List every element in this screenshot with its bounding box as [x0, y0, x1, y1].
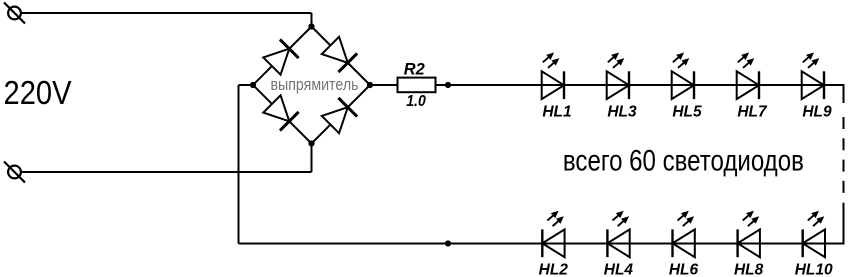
svg-text:220V: 220V: [4, 74, 72, 111]
svg-text:HL3: HL3: [607, 104, 637, 121]
bridge rectifier frame (diamond): [253, 27, 370, 144]
svg-text:1.0: 1.0: [406, 93, 426, 110]
wire: right side vertical (solid bottom): [843, 203, 845, 245]
junction bridge plus node: [367, 82, 373, 88]
LED HL8: [738, 211, 760, 257]
wire: right side vertical dashed (continuation mark): [843, 117, 845, 193]
diode VD1 (left-top arm): [263, 39, 298, 74]
svg-text:HL1: HL1: [542, 104, 571, 121]
junction node after R2: [445, 82, 451, 88]
wire: bridge minus output, left/down/bottom rail: [239, 85, 844, 244]
svg-text:HL5: HL5: [672, 104, 702, 121]
junction bridge minus node: [250, 82, 256, 88]
diode VD3 (left-bottom arm): [263, 95, 298, 130]
diode VD4 (bottom-right arm): [322, 98, 357, 133]
wire: bottom terminal to bridge bottom: [21, 144, 312, 173]
svg-text:R2: R2: [404, 61, 425, 79]
LED HL1: [542, 53, 564, 99]
wire: resistor to LED chain (top rail): [436, 84, 844, 86]
wire: bridge plus output to resistor: [370, 84, 398, 86]
svg-text:всего 60 светодиодов: всего 60 светодиодов: [563, 145, 804, 178]
junction bridge top node: [308, 23, 314, 29]
terminal X2 (bottom input): [4, 162, 25, 183]
svg-text:HL8: HL8: [734, 262, 764, 277]
resistor R2: [398, 78, 436, 93]
junction bridge bottom node: [308, 140, 314, 146]
junction bottom rail node: [445, 240, 451, 246]
LED HL10: [803, 211, 825, 257]
LED HL7: [737, 53, 759, 99]
terminal X1 (top input): [4, 3, 25, 24]
svg-text:HL10: HL10: [795, 262, 833, 277]
svg-text:выпрямитель: выпрямитель: [271, 75, 359, 94]
svg-text:HL7: HL7: [737, 104, 768, 121]
diode VD2 (top-right arm): [322, 37, 357, 72]
wire: top terminal to bridge top: [21, 13, 312, 27]
LED HL5: [672, 53, 694, 99]
svg-text:HL4: HL4: [604, 262, 634, 277]
LED HL9: [802, 53, 824, 99]
wire: right side vertical (solid top): [843, 84, 845, 103]
LED HL4: [607, 211, 629, 257]
svg-text:HL9: HL9: [802, 104, 832, 121]
LED HL6: [673, 211, 695, 257]
LED HL2: [542, 211, 564, 257]
svg-text:HL2: HL2: [539, 262, 569, 277]
LED HL3: [607, 53, 629, 99]
svg-text:HL6: HL6: [669, 262, 699, 277]
